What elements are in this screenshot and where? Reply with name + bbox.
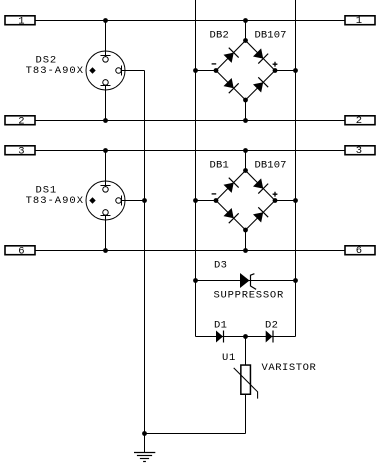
junction node rail3-DS1 bbox=[103, 148, 108, 153]
DS2 bottom pin bar bbox=[101, 85, 111, 87]
wire ground stub bbox=[144, 434, 146, 453]
diode DB1 lower-right bbox=[252, 207, 268, 223]
DB2 plus sign bbox=[273, 62, 278, 67]
svg-text:6: 6 bbox=[356, 245, 362, 257]
wire rail3 to DS1 top pin bbox=[105, 151, 107, 187]
svg-text:3: 3 bbox=[356, 145, 362, 157]
svg-text:T83-A90X: T83-A90X bbox=[26, 195, 84, 207]
ground symbol bar 3 bbox=[140, 458, 149, 460]
terminal box 2 left bbox=[5, 116, 35, 125]
junction node rail3-DB1 bbox=[243, 148, 248, 153]
wire rail 6 bbox=[36, 250, 345, 252]
diode D2 cathode bar bbox=[272, 331, 274, 343]
varistor U1 body bbox=[241, 365, 251, 394]
svg-text:DB1: DB1 bbox=[210, 160, 230, 172]
DS1 keying diamond bbox=[89, 197, 95, 203]
terminal box 2 right bbox=[345, 116, 375, 125]
junction node rail1-DS2 bbox=[103, 18, 108, 23]
junction node bus-right DB2 bbox=[293, 68, 298, 73]
wire DS1 bottom pin to rail6 bbox=[105, 214, 107, 251]
bridge DB1 edge bottom-right bbox=[246, 201, 276, 231]
wire DS1 right pin horizontal bbox=[120, 200, 144, 202]
diode DB2 lower-left bbox=[223, 77, 239, 93]
ground symbol bar 4 bbox=[143, 461, 146, 463]
suppressor D3 triangle bbox=[240, 273, 250, 288]
suppressor D3 cathode bar bbox=[251, 274, 257, 290]
wire DB1 right vertex to bus-right bbox=[275, 200, 296, 202]
wire D1 D2 row bbox=[196, 336, 296, 338]
svg-text:3: 3 bbox=[18, 146, 24, 158]
svg-text:SUPPRESSOR: SUPPRESSOR bbox=[214, 290, 285, 302]
wire middle vertical from DS2 right pin to ground node bbox=[144, 71, 146, 434]
wire bus-left to DB1 left vertex bbox=[196, 200, 217, 202]
svg-text:DB107: DB107 bbox=[255, 30, 287, 42]
terminal box 6 left bbox=[5, 246, 35, 255]
DS1 bottom pin contact bbox=[103, 210, 109, 216]
bridge DB2 edge top-left bbox=[216, 41, 246, 71]
wire rail1 to DS2 top pin bbox=[105, 21, 107, 57]
diode DB2 lower-right bbox=[252, 77, 268, 93]
DS1 top pin contact bbox=[103, 187, 109, 193]
diode DB1 upper-left bbox=[223, 178, 239, 194]
terminal box 3 right bbox=[345, 146, 375, 155]
wire DB2 right vertex to bus-right bbox=[275, 70, 296, 72]
wire vertical bus right bbox=[295, 0, 297, 337]
bridge DB1 edge top-right bbox=[246, 171, 276, 201]
wire rail 1 bbox=[36, 20, 345, 22]
node DB1 left vertex bbox=[214, 198, 219, 203]
wire DB1 bottom to rail6 bbox=[245, 230, 247, 251]
wire rail 3 bbox=[36, 150, 345, 152]
svg-text:D1: D1 bbox=[214, 320, 227, 332]
bridge DB1 edge top-left bbox=[216, 171, 246, 201]
wire ground row horizontal bbox=[145, 433, 246, 435]
ground symbol bar 2 bbox=[137, 455, 152, 457]
DS2 top pin bar bbox=[101, 55, 111, 57]
wire DS2 bottom pin to rail2 bbox=[105, 84, 107, 121]
diode D1 triangle bbox=[216, 331, 223, 343]
junction node D1-D2 bbox=[243, 334, 248, 339]
wire vertical bus left bbox=[195, 0, 197, 337]
wire rail1 to DB2 top bbox=[245, 21, 247, 41]
svg-text:1: 1 bbox=[18, 16, 24, 28]
node DB2 left vertex bbox=[214, 68, 219, 73]
junction node bus-left DB2 bbox=[193, 68, 198, 73]
svg-text:T83-A90X: T83-A90X bbox=[26, 65, 84, 77]
bridge DB2 edge bottom-left bbox=[216, 71, 246, 101]
diode D2 triangle bbox=[266, 331, 273, 343]
junction node rail6-DB1 bbox=[243, 248, 248, 253]
junction node ground bbox=[142, 431, 147, 436]
wire suppressor row bbox=[196, 280, 296, 282]
node DB2 top vertex bbox=[243, 38, 248, 43]
junction node rail2-DS2 bbox=[103, 118, 108, 123]
bridge DB2 edge top-right bbox=[246, 41, 276, 71]
DB2 minus sign bbox=[212, 63, 217, 65]
terminal box 1 right bbox=[345, 16, 375, 25]
junction node rail2-DB2 bbox=[243, 118, 248, 123]
diode D1 cathode bar bbox=[223, 331, 225, 343]
bridge DB1 edge bottom-left bbox=[216, 201, 246, 231]
DS2 body circle bbox=[86, 51, 125, 90]
wire DB2 bottom to rail2 bbox=[245, 100, 247, 121]
node DB2 right vertex bbox=[273, 68, 278, 73]
wire DS2 right pin horizontal bbox=[120, 70, 144, 72]
bridge DB2 edge bottom-right bbox=[246, 71, 276, 101]
DS1 right pin contact bbox=[116, 198, 122, 204]
diode DB2 upper-right bbox=[252, 47, 268, 63]
svg-text:1: 1 bbox=[356, 15, 362, 27]
diode DB2 upper-left bbox=[223, 48, 239, 64]
node DB1 right vertex bbox=[273, 198, 278, 203]
DS1 right pin bar bbox=[121, 196, 123, 206]
svg-text:U1: U1 bbox=[222, 352, 236, 364]
DS1 bottom pin bar bbox=[101, 215, 111, 217]
node DB1 top vertex bbox=[243, 168, 248, 173]
svg-text:D2: D2 bbox=[265, 320, 278, 332]
wire bus-left to DB2 left vertex bbox=[196, 70, 217, 72]
DS2 right pin bar bbox=[121, 66, 123, 76]
junction node suppressor left bbox=[193, 278, 198, 283]
terminal box 1 left bbox=[5, 16, 35, 25]
terminal box 3 left bbox=[5, 146, 35, 155]
diode DB1 upper-right bbox=[252, 177, 268, 193]
svg-text:DB2: DB2 bbox=[210, 30, 230, 42]
node DB1 bottom vertex bbox=[243, 228, 248, 233]
DS2 top pin contact bbox=[103, 57, 109, 63]
junction node DS1 right pin bbox=[142, 198, 147, 203]
svg-text:6: 6 bbox=[18, 246, 24, 258]
DS1 body circle bbox=[86, 181, 125, 220]
ground symbol bar 1 bbox=[134, 452, 155, 454]
terminal box 6 right bbox=[345, 246, 375, 255]
varistor U1 diagonal stroke bbox=[234, 368, 258, 399]
DS2 keying diamond bbox=[89, 67, 95, 73]
svg-text:D3: D3 bbox=[214, 260, 227, 272]
junction node rail1-DB2 bbox=[243, 18, 248, 23]
svg-text:DB107: DB107 bbox=[255, 160, 287, 172]
wire rail 2 bbox=[36, 120, 345, 122]
svg-text:2: 2 bbox=[18, 116, 24, 128]
wire D1D2 node to varistor bbox=[245, 337, 247, 365]
wire rail3 to DB1 top bbox=[245, 151, 247, 171]
DS2 bottom pin contact bbox=[103, 80, 109, 86]
DB1 plus sign bbox=[273, 192, 278, 197]
junction node suppressor right bbox=[293, 278, 298, 283]
DS2 right pin contact bbox=[116, 68, 122, 74]
wire varistor to ground row bbox=[245, 395, 247, 434]
DS1 top pin bar bbox=[101, 185, 111, 187]
junction node bus-right DB1 bbox=[293, 198, 298, 203]
junction node bus-left DB1 bbox=[193, 198, 198, 203]
junction node rail6-DS1 bbox=[103, 248, 108, 253]
svg-text:2: 2 bbox=[356, 115, 362, 127]
diode DB1 lower-left bbox=[223, 207, 239, 223]
svg-text:VARISTOR: VARISTOR bbox=[262, 362, 317, 374]
DB1 minus sign bbox=[212, 193, 217, 195]
node DB2 bottom vertex bbox=[243, 98, 248, 103]
